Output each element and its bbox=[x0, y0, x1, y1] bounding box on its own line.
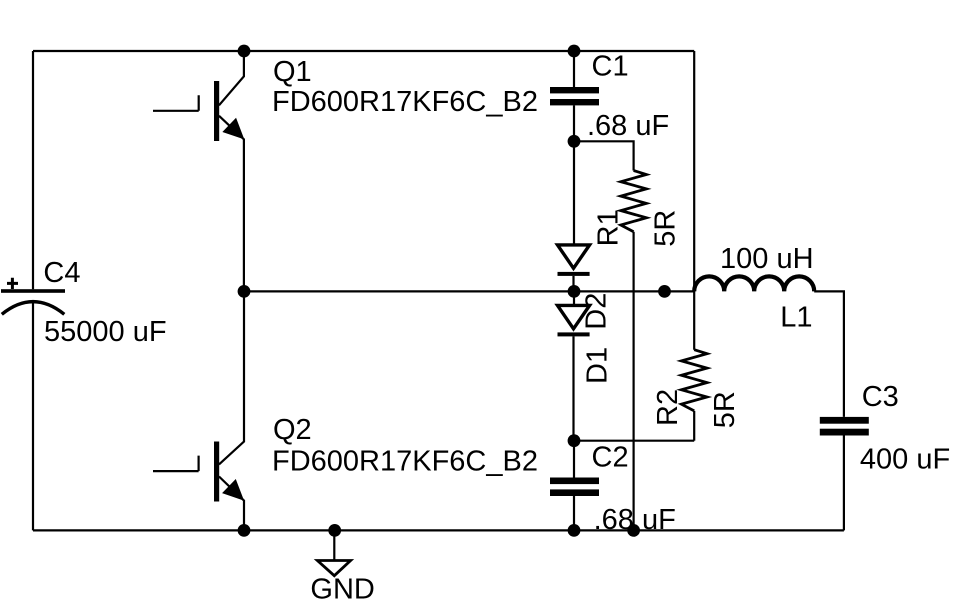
wire C1 node to R1 bbox=[574, 141, 634, 170]
resistor R1 bbox=[621, 171, 647, 232]
wire left rail lower bbox=[32, 303, 34, 531]
wire bottom rail bbox=[33, 529, 844, 531]
node H bottom junction Q2 emitter bbox=[238, 524, 251, 537]
svg-text:GND: GND bbox=[310, 574, 374, 606]
node C junction below C1 bbox=[568, 135, 581, 148]
wire left rail upper bbox=[32, 51, 34, 289]
svg-text:R2: R2 bbox=[652, 389, 684, 426]
node E junction on mid rail bbox=[658, 285, 671, 298]
svg-text:100 uH: 100 uH bbox=[720, 243, 814, 275]
svg-text:.68 uF: .68 uF bbox=[587, 110, 669, 142]
wire top rail bbox=[33, 50, 694, 52]
node K R1 bottom on rail bbox=[627, 524, 640, 537]
svg-text:5R: 5R bbox=[650, 210, 682, 247]
wire right vertical from top rail to R2 bbox=[693, 51, 695, 350]
wire diode branch upper bbox=[573, 141, 575, 245]
node J C2 bottom on rail bbox=[568, 524, 581, 537]
node A top-left junction Q1 collector bbox=[238, 45, 251, 58]
capacitor C1 bbox=[550, 51, 599, 141]
node I GND tap on bottom rail bbox=[328, 524, 341, 537]
svg-text:400 uF: 400 uF bbox=[860, 444, 950, 476]
capacitor C2 bbox=[550, 441, 599, 531]
svg-text:C1: C1 bbox=[592, 51, 629, 83]
node G junction D1 bottom bbox=[568, 434, 581, 447]
wire mid rail (phase node) bbox=[244, 290, 694, 292]
capacitor C3 bbox=[820, 417, 869, 531]
svg-text:R1: R1 bbox=[593, 209, 625, 246]
polarity plus C4 bbox=[7, 278, 18, 289]
wire R1 bottom long lead to bottom rail bbox=[632, 232, 634, 531]
svg-text:.68 uF: .68 uF bbox=[594, 504, 676, 536]
wire R2 bottom lead bbox=[693, 411, 695, 441]
svg-text:D1: D1 bbox=[581, 347, 613, 384]
svg-text:L1: L1 bbox=[780, 302, 812, 334]
svg-text:C2: C2 bbox=[592, 441, 629, 473]
wire D1 bottom to R2 bottom bbox=[574, 440, 694, 442]
wire L1 to C3 corner bbox=[814, 291, 844, 417]
inductor L1 bbox=[694, 276, 814, 291]
resistor R2 bbox=[681, 350, 707, 411]
svg-text:FD600R17KF6C_B2: FD600R17KF6C_B2 bbox=[272, 445, 538, 477]
svg-text:C4: C4 bbox=[43, 257, 80, 289]
diode D1 bbox=[558, 291, 590, 440]
svg-text:C3: C3 bbox=[862, 381, 899, 413]
transistor Q2 bbox=[153, 291, 244, 530]
svg-text:Q2: Q2 bbox=[273, 414, 312, 446]
transistor Q1 bbox=[153, 51, 244, 291]
svg-text:5R: 5R bbox=[709, 391, 741, 428]
node D junction between diodes bbox=[568, 285, 581, 298]
svg-text:55000 uF: 55000 uF bbox=[44, 316, 167, 348]
diode D2 bbox=[558, 245, 590, 292]
svg-text:Q1: Q1 bbox=[273, 56, 312, 88]
svg-text:FD600R17KF6C_B2: FD600R17KF6C_B2 bbox=[272, 86, 538, 118]
capacitor C4 bbox=[1, 289, 65, 314]
node F phase junction at Q column bbox=[238, 285, 251, 298]
node B top junction C1 bbox=[568, 45, 581, 58]
ground bbox=[317, 530, 350, 575]
